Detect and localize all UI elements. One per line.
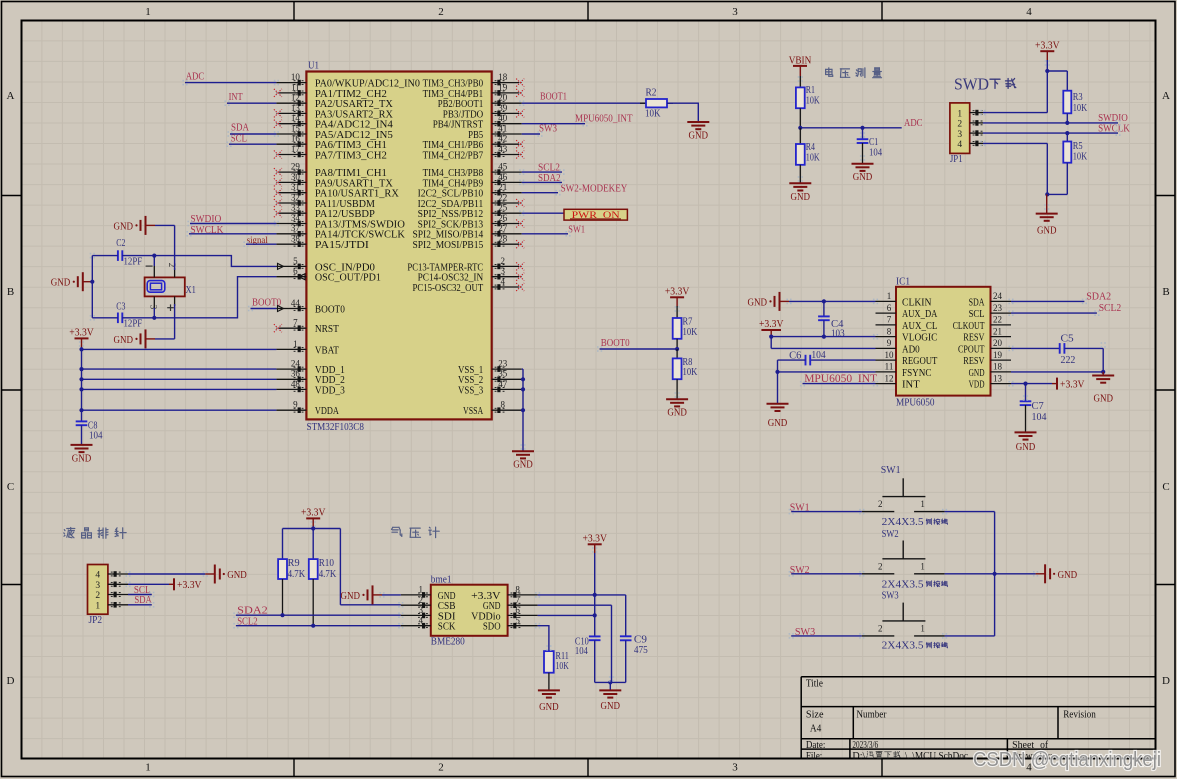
IC1 pin 7 AUX_CL — [876, 315, 938, 332]
svg-text:9: 9 — [887, 338, 892, 348]
svg-text:46: 46 — [498, 172, 508, 182]
svg-text:3: 3 — [95, 581, 100, 591]
svg-text:2X4X3.5: 2X4X3.5 — [882, 517, 924, 528]
svg-text:PA7/TIM3_CH2: PA7/TIM3_CH2 — [315, 149, 387, 161]
svg-text:1: 1 — [887, 291, 892, 301]
svg-text:R4: R4 — [806, 142, 815, 153]
U1 pin 47 VSS_3 — [458, 379, 522, 397]
svg-text:14: 14 — [291, 113, 301, 123]
wire pin6 VDDio — [538, 613, 597, 617]
wire ADC node — [798, 126, 902, 130]
bme1 pin 4 SCK — [401, 616, 456, 633]
svg-text:17: 17 — [291, 144, 301, 154]
switch SW1 — [862, 465, 948, 528]
svg-text:VDDA: VDDA — [315, 405, 339, 417]
net label SW3 and wire — [791, 626, 862, 638]
U1 pin 21 I2C2_SCL/PB10 — [418, 182, 522, 200]
svg-text:2X4X3.5: 2X4X3.5 — [882, 579, 924, 590]
svg-text:SPI2_MOSI/PB15: SPI2_MOSI/PB15 — [413, 239, 484, 251]
bme1 pin 7 GND — [483, 595, 538, 612]
capacitor C5 — [1011, 333, 1103, 365]
net label SWCLK (JP1) and wire — [983, 123, 1130, 136]
IC1 pin 19 RESV — [963, 350, 1011, 367]
power +3.3V (MPU VDD) — [1052, 378, 1085, 391]
svg-text:C7: C7 — [1032, 401, 1044, 412]
svg-text:5: 5 — [515, 616, 520, 626]
U1 pin 45 TIM4_CH3/PB8 — [423, 162, 522, 180]
svg-text:SDA2: SDA2 — [1086, 290, 1111, 302]
U1 pin 41 PB5 — [468, 123, 522, 141]
svg-text:+3.3V: +3.3V — [1035, 40, 1060, 51]
svg-text:GND: GND — [114, 221, 134, 232]
bme1 pin 8 +3.3V — [471, 585, 537, 602]
U1 pin 19 TIM3_CH4/PB1 — [423, 82, 525, 100]
svg-text:AD0: AD0 — [902, 343, 920, 355]
U1 pin 5 OSC_IN/PD0 — [276, 256, 375, 274]
svg-text:SW1: SW1 — [881, 465, 901, 476]
wire VSS bus — [521, 369, 525, 451]
power +3.3V (pullups) — [301, 508, 326, 528]
bme1 pin 3 SDI — [401, 605, 456, 622]
power +3.3V (BOOT0 divider) — [665, 287, 690, 307]
U1 pin 16 PA6/TIM3_CH1 — [276, 134, 387, 152]
svg-text:24: 24 — [291, 359, 301, 369]
svg-text:7: 7 — [887, 315, 892, 325]
wire JP2 pin3 to +3.3V — [128, 583, 169, 585]
svg-text:2: 2 — [419, 595, 424, 605]
resistor R8 — [673, 349, 698, 399]
svg-text:R3: R3 — [1073, 92, 1083, 103]
IC1 pin 13 VDD — [969, 373, 1011, 390]
bme1 pin 1 GND — [401, 585, 456, 602]
power +3.3V (JP2) — [169, 578, 202, 591]
power +3.3V (left rail) — [69, 328, 94, 348]
wire VLOGIC/AD0 to +3.3V — [769, 335, 875, 349]
svg-text:1: 1 — [293, 339, 298, 349]
svg-text:C2: C2 — [116, 238, 125, 249]
capacitor C9 — [620, 595, 648, 683]
U1 pin 15 PA5/ADC12_IN5 — [276, 123, 393, 141]
svg-text:22: 22 — [993, 315, 1002, 325]
svg-text:7: 7 — [515, 595, 520, 605]
svg-text:103: 103 — [831, 329, 845, 340]
U1 pin 35 VSS_2 — [458, 369, 522, 387]
svg-text:3: 3 — [419, 605, 424, 615]
IC1 pin 8 VLOGIC — [876, 326, 938, 343]
svg-text:bme1: bme1 — [431, 575, 452, 586]
svg-text:GND: GND — [601, 701, 621, 712]
switch SW3 — [862, 590, 948, 651]
svg-text:GND: GND — [1093, 394, 1113, 405]
U1 pin 20 PB2/BOOT1 — [438, 93, 522, 111]
U1 pin 9 VDDA — [276, 400, 339, 418]
svg-text:1: 1 — [920, 499, 925, 509]
svg-text:31: 31 — [291, 182, 300, 192]
svg-text:GND: GND — [341, 591, 361, 602]
svg-text:32: 32 — [291, 192, 300, 202]
IC U1 STM32F103C8 body — [306, 61, 491, 434]
svg-text:GND: GND — [768, 418, 788, 429]
svg-text:IC1: IC1 — [896, 277, 910, 288]
svg-text:RESV: RESV — [963, 355, 984, 367]
U1 pin 13 PA3/USART2_RX — [274, 103, 393, 121]
net label SW2 and wire — [790, 564, 862, 576]
svg-text:GND: GND — [853, 172, 873, 183]
svg-text:VBAT: VBAT — [315, 344, 339, 356]
svg-text:41: 41 — [498, 123, 507, 133]
svg-text:REGOUT: REGOUT — [902, 355, 938, 367]
U1 pin 11 PA1/TIM2_CH2 — [274, 82, 387, 100]
net label SCL and wire — [229, 132, 276, 144]
wire CLKIN — [789, 299, 876, 303]
svg-text:SDO: SDO — [483, 621, 501, 633]
svg-text:CPOUT: CPOUT — [958, 343, 985, 355]
U1 pin 38 PA15/JTDI — [276, 234, 369, 252]
file path with CJK — [852, 751, 968, 762]
ground (crystal bottom) — [114, 329, 156, 348]
ground (crystal top) — [114, 216, 156, 235]
net label SW3 (U1) and wire — [522, 123, 558, 135]
wire BME ground node — [595, 680, 626, 690]
svg-text:SDA: SDA — [969, 296, 985, 308]
crystal X1 — [145, 263, 196, 311]
svg-text:B: B — [1162, 286, 1169, 298]
svg-text:3: 3 — [732, 762, 738, 774]
wire pin5 SDO to R11 — [538, 626, 549, 651]
svg-text:43: 43 — [498, 144, 508, 154]
svg-text:2: 2 — [500, 256, 505, 266]
U1 pin 30 PA9/USART1_TX — [274, 172, 393, 190]
svg-text:D:\: D:\ — [852, 751, 865, 762]
svg-text:Revision: Revision — [1063, 709, 1096, 720]
svg-text:10K: 10K — [806, 96, 821, 107]
net label MPU6050_INT (IC1) and wire — [803, 373, 878, 385]
svg-text:SW2-MODEKEY: SW2-MODEKEY — [561, 182, 628, 194]
svg-text:48: 48 — [291, 379, 301, 389]
net label SDA and wire — [230, 122, 276, 135]
svg-text:5: 5 — [293, 256, 298, 266]
ground (R4) — [789, 183, 811, 203]
svg-text:2: 2 — [438, 762, 444, 774]
watermark CSDN — [973, 749, 1161, 771]
svg-text:35: 35 — [498, 369, 508, 379]
svg-text:A4: A4 — [810, 723, 822, 734]
capacitor C3 — [116, 301, 142, 329]
U1 pin 46 TIM4_CH4/PB9 — [423, 172, 522, 190]
svg-text:VDD_3: VDD_3 — [315, 384, 345, 396]
net label SDA (JP2) and wire — [128, 594, 152, 606]
svg-text:D: D — [7, 675, 15, 687]
svg-text:AUX_CL: AUX_CL — [902, 320, 937, 332]
U1 pin 40 PB4/JNTRST — [433, 113, 522, 131]
svg-text:2X4X3.5: 2X4X3.5 — [882, 641, 924, 652]
svg-text:2: 2 — [957, 120, 962, 130]
IC1 pin 10 REGOUT — [876, 350, 938, 367]
svg-text:2: 2 — [878, 561, 883, 571]
svg-text:BOOT0: BOOT0 — [601, 337, 630, 349]
net label BOOT0 and wire (pin 44) — [251, 297, 282, 309]
svg-text:47: 47 — [498, 379, 508, 389]
svg-text:1: 1 — [920, 561, 925, 571]
net label SCL2 (BME) and wire — [236, 615, 401, 627]
net label SWCLK and wire — [189, 224, 276, 236]
svg-text:1: 1 — [95, 602, 100, 612]
wire crystal bottom ground — [155, 338, 175, 340]
ground (R2) — [687, 122, 709, 142]
svg-text:4.7K: 4.7K — [288, 569, 306, 580]
ground (C7) — [1015, 432, 1037, 453]
wire VBAT — [82, 348, 277, 350]
wire +3.3V to JP1 pin1 and R3 — [983, 60, 1067, 113]
svg-text:SCL: SCL — [969, 308, 985, 320]
wire FSYNC/C6 ground node — [775, 360, 875, 404]
U1 pin 36 VDD_2 — [276, 369, 345, 387]
U1 pin 31 PA10/USART1_RX — [274, 182, 399, 200]
ground (SWD) — [1036, 194, 1058, 236]
wire JP2 pin4 to GND — [128, 573, 205, 575]
net label SWDIO and wire — [190, 213, 276, 225]
svg-text:R9: R9 — [288, 558, 300, 569]
svg-text:10K: 10K — [683, 367, 699, 378]
svg-text:NRST: NRST — [315, 323, 339, 335]
wire +3.3V rail — [81, 347, 83, 421]
svg-text:7: 7 — [293, 318, 298, 328]
svg-text:INT: INT — [229, 91, 243, 103]
svg-text:SW2: SW2 — [882, 529, 899, 540]
U1 pin 32 PA11/USBDM — [274, 192, 375, 210]
svg-text:9: 9 — [293, 400, 298, 410]
svg-text:1: 1 — [145, 6, 151, 18]
net label SCL (JP2) and wire — [128, 584, 152, 596]
IC1 pin 21 RESV — [963, 326, 1011, 343]
svg-text:12PF: 12PF — [124, 319, 143, 330]
svg-text:3: 3 — [149, 305, 159, 310]
net label INT and wire — [227, 91, 276, 103]
section title SWD下载 — [954, 75, 1016, 94]
svg-text:104: 104 — [869, 148, 882, 159]
svg-text:FSYNC: FSYNC — [902, 367, 932, 379]
U1 pin 34 PA13/JTMS/SWDIO — [276, 213, 405, 231]
svg-text:1: 1 — [419, 585, 424, 595]
svg-text:4: 4 — [957, 140, 962, 150]
svg-text:34: 34 — [291, 213, 301, 223]
svg-text:BOOT1: BOOT1 — [540, 91, 567, 103]
svg-text:4: 4 — [419, 616, 424, 626]
U1 pin 23 VSS_1 — [458, 359, 522, 377]
harness PWR_ON and wire — [522, 209, 628, 221]
svg-text:GND: GND — [1037, 225, 1057, 236]
svg-text:33: 33 — [291, 203, 301, 213]
resistor R3 — [1063, 91, 1088, 123]
ground (switches) — [1036, 564, 1078, 583]
U1 pin 33 PA12/USBDP — [274, 203, 375, 221]
svg-text:104: 104 — [575, 646, 588, 657]
svg-text:6: 6 — [293, 266, 298, 276]
svg-text:B: B — [7, 286, 14, 298]
svg-text:X1: X1 — [186, 285, 196, 296]
U1 pin 8 VSSA — [463, 400, 522, 418]
svg-text:20: 20 — [993, 338, 1003, 348]
svg-text:10: 10 — [291, 72, 301, 82]
svg-text:OSC_OUT/PD1: OSC_OUT/PD1 — [315, 272, 381, 284]
svg-text:222: 222 — [1061, 355, 1076, 366]
svg-text:1: 1 — [957, 109, 962, 119]
svg-text:SCL: SCL — [231, 132, 248, 144]
power +3.3V (BME right) — [582, 534, 607, 554]
svg-text:39: 39 — [498, 103, 508, 113]
svg-text:44: 44 — [291, 298, 301, 308]
svg-text:GND: GND — [1058, 570, 1078, 581]
IC1 pin 18 GND — [969, 362, 1011, 379]
svg-text:+3.3V: +3.3V — [759, 319, 784, 330]
svg-text:2: 2 — [167, 263, 177, 268]
ground (under C8) — [71, 425, 93, 464]
U1 pin 6 OSC_OUT/PD1 — [276, 266, 381, 284]
svg-text:4: 4 — [1026, 6, 1032, 18]
svg-text:VSSA: VSSA — [463, 405, 483, 417]
svg-text:ADC: ADC — [186, 71, 205, 83]
svg-text:3: 3 — [732, 6, 738, 18]
IC1 pin 22 CLKOUT — [953, 315, 1011, 332]
svg-text:45: 45 — [498, 162, 508, 172]
wire pullup rail — [283, 526, 401, 604]
svg-text:JP2: JP2 — [89, 615, 103, 626]
capacitor C4 — [818, 301, 845, 339]
svg-text:475: 475 — [634, 645, 648, 656]
IC IC1 MPU6050 body — [896, 277, 991, 409]
net label SDA2 (U1) and wire — [522, 172, 562, 184]
svg-text:2023/3/6: 2023/3/6 — [852, 740, 878, 751]
svg-text:MPU6050_INT: MPU6050_INT — [575, 113, 633, 125]
svg-text:R2: R2 — [646, 88, 657, 99]
svg-text:U1: U1 — [308, 61, 319, 72]
svg-text:42: 42 — [498, 134, 507, 144]
svg-text:+3.3V: +3.3V — [665, 287, 690, 298]
wire R2 to ground — [667, 103, 698, 122]
svg-text:2: 2 — [878, 499, 883, 509]
svg-text:+3.3V: +3.3V — [1060, 379, 1085, 390]
svg-text:22: 22 — [498, 192, 507, 202]
ground (BME) — [599, 690, 621, 712]
section title 气压计 — [392, 527, 440, 538]
svg-text:VSS_3: VSS_3 — [458, 384, 483, 396]
svg-text:4: 4 — [95, 571, 100, 581]
svg-text:11: 11 — [885, 362, 894, 372]
resistor R2 — [640, 88, 673, 120]
U1 pin 14 PA4/ADC12_IN4 — [274, 113, 394, 131]
IC1 pin 1 CLKIN — [876, 291, 932, 308]
net label MPU6050_INT (U1) and wire — [522, 113, 633, 125]
wire C5 to GND pin — [1011, 348, 1105, 374]
svg-text:C9: C9 — [634, 634, 647, 645]
svg-text:SW1: SW1 — [568, 223, 585, 235]
svg-text:GND: GND — [1016, 442, 1036, 453]
svg-text:\..\MCU.SchDoc: \..\MCU.SchDoc — [905, 751, 969, 762]
svg-text:16: 16 — [291, 134, 301, 144]
U1 pin 17 PA7/TIM3_CH2 — [274, 144, 387, 162]
svg-text:10: 10 — [885, 350, 895, 360]
power +3.3V (SWD) — [1035, 40, 1060, 60]
svg-text:C: C — [1162, 481, 1169, 493]
svg-text:C: C — [7, 481, 14, 493]
net label signal and wire — [246, 236, 276, 246]
svg-text:GND: GND — [227, 570, 247, 581]
svg-text:+3.3V: +3.3V — [177, 580, 202, 591]
svg-text:23: 23 — [993, 303, 1003, 313]
svg-text:11: 11 — [291, 82, 300, 92]
svg-text:SCL2: SCL2 — [1099, 302, 1122, 314]
resistor R7 — [673, 306, 698, 349]
U1 pin 48 VDD_3 — [276, 379, 345, 397]
IC1 pin 9 AD0 — [876, 338, 920, 355]
svg-text:12: 12 — [291, 93, 300, 103]
svg-text:104: 104 — [89, 431, 103, 442]
capacitor C8 — [76, 420, 103, 441]
svg-text:BME280: BME280 — [431, 637, 465, 648]
U1 pin 42 TIM4_CH1/PB6 — [423, 134, 525, 152]
svg-text:38: 38 — [291, 234, 301, 244]
svg-text:BOOT0: BOOT0 — [252, 297, 282, 309]
ground (VSS) — [512, 451, 534, 471]
U1 pin 43 TIM4_CH2/PB7 — [423, 144, 525, 162]
svg-text:C5: C5 — [1061, 333, 1074, 344]
svg-text:Date:: Date: — [806, 740, 826, 751]
svg-text:15: 15 — [291, 123, 301, 133]
U1 pin 28 SPI2_MOSI/PB15 — [413, 234, 525, 252]
svg-text:2: 2 — [878, 623, 883, 633]
resistor R5 — [1063, 133, 1088, 194]
svg-text:10K: 10K — [1073, 151, 1088, 162]
svg-text:2: 2 — [95, 591, 100, 601]
U1 pin 12 PA2/USART2_TX — [276, 93, 393, 111]
U1 pin 37 PA14/JTCK/SWCLK — [276, 223, 405, 241]
U1 pin 22 I2C2_SDA/PB11 — [418, 192, 525, 210]
wire VDDA — [82, 409, 277, 411]
ground (JP2) — [205, 565, 247, 584]
connector JP2 — [88, 565, 129, 626]
svg-text:21: 21 — [498, 182, 507, 192]
ground (BOOT0 divider) — [666, 399, 688, 419]
svg-text:26: 26 — [498, 213, 508, 223]
wire VDD_1 — [82, 368, 277, 370]
svg-text:GND: GND — [539, 702, 559, 713]
svg-text:29: 29 — [291, 162, 301, 172]
capacitor C7 — [1020, 384, 1047, 433]
resistor R1 — [796, 76, 820, 128]
U1 pin 10 PA0/WKUP/ADC12_IN0 — [276, 72, 420, 90]
IC1 pin 23 SCL — [969, 303, 1011, 320]
svg-text:INT: INT — [902, 379, 920, 391]
net label SCL2 (U1) and wire — [522, 162, 562, 174]
IC1 pin 11 FSYNC — [876, 362, 932, 379]
svg-text:AUX_DA: AUX_DA — [902, 308, 938, 320]
ground (MPU GND pin) — [1092, 372, 1114, 405]
svg-text:13: 13 — [291, 103, 301, 113]
ground (bme1 pin1) — [341, 585, 383, 604]
svg-text:MPU6050: MPU6050 — [896, 398, 935, 409]
section title 液晶排针 — [64, 528, 126, 539]
svg-text:19: 19 — [498, 82, 508, 92]
svg-text:+3.3V: +3.3V — [582, 534, 607, 545]
capacitor C10 — [575, 595, 601, 683]
net label SW1 (U1) and wire — [522, 223, 585, 235]
U1 pin 39 PB3/JTDO — [443, 103, 524, 121]
wire VDD_3 — [82, 388, 277, 390]
ground (C1) — [852, 164, 874, 184]
svg-text:GND: GND — [791, 192, 811, 203]
IC1 pin 20 CPOUT — [958, 338, 1011, 355]
svg-text:10K: 10K — [806, 152, 821, 163]
